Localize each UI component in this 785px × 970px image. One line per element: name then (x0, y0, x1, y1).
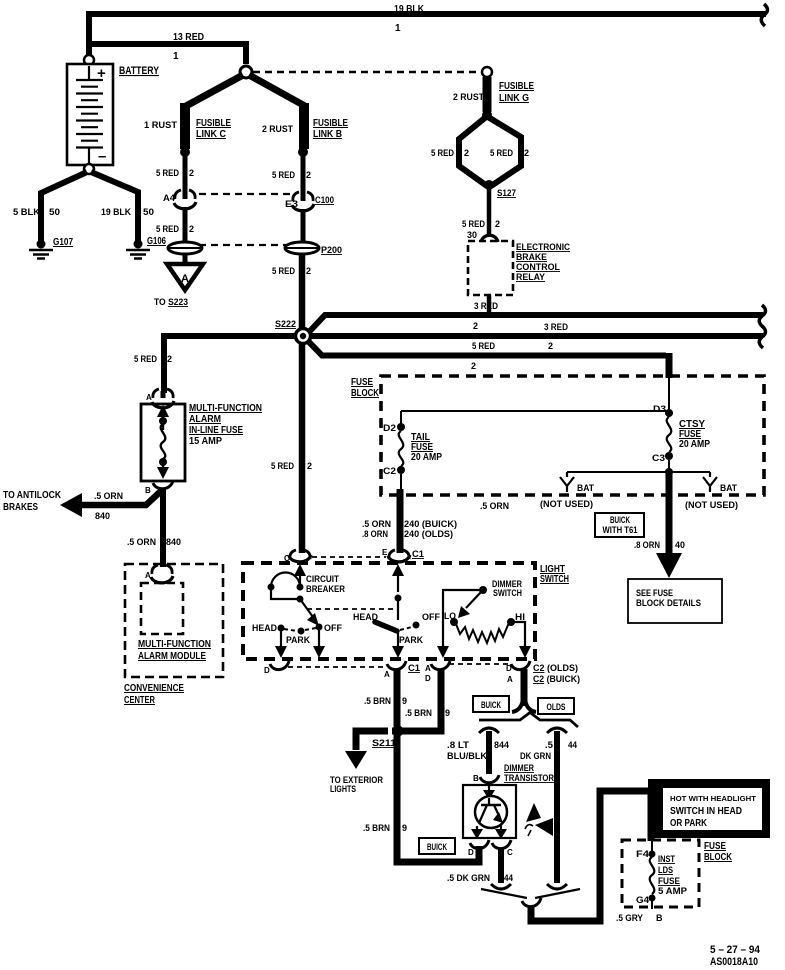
svg-text:WITH T61: WITH T61 (603, 525, 638, 535)
svg-text:.5 ORN: .5 ORN (480, 501, 509, 511)
label C (507, 848, 513, 857)
svg-text:SEE FUSE: SEE FUSE (636, 588, 673, 598)
label PARK (286, 635, 310, 645)
ground G107 (29, 240, 53, 259)
svg-text:5 RED: 5 RED (462, 219, 485, 229)
battery top terminal (84, 55, 94, 65)
wire 5 RED to P200 (301, 209, 306, 243)
svg-text:15 AMP: 15 AMP (189, 436, 222, 447)
break symbol right end 19 BLK (761, 4, 767, 26)
svg-text:50: 50 (143, 207, 154, 217)
label ELECTRONIC BRAKE CONTROL RELAY (516, 242, 570, 282)
svg-text:1: 1 (173, 51, 179, 62)
svg-text:PARK: PARK (286, 635, 310, 645)
svg-text:5 RED: 5 RED (272, 170, 295, 180)
label D3 (653, 404, 666, 414)
label MULTI-FUNCTION ALARM MODULE (138, 639, 211, 662)
wire .5 DK GRN from C down (498, 849, 504, 883)
svg-text:BUICK: BUICK (427, 842, 447, 852)
svg-text:AS0018A10: AS0018A10 (710, 956, 758, 968)
stub below G4 (651, 901, 653, 909)
label OFF (324, 623, 342, 633)
label .8 ORN 240 OLDS (362, 529, 453, 539)
label DIMMER TRANSISTOR (504, 763, 554, 783)
label A module (145, 571, 151, 580)
arrow HEAD to D (275, 631, 287, 658)
svg-text:RELAY: RELAY (516, 272, 545, 282)
BAT fork left (560, 472, 574, 492)
label .5 ORN floating (480, 501, 509, 511)
svg-text:OLDS: OLDS (547, 702, 566, 712)
electronic brake control relay dashed box (468, 241, 513, 295)
ctsy fuse element (667, 417, 672, 452)
junction dot below link B (298, 147, 308, 157)
label G4 (636, 895, 649, 905)
svg-text:CENTER: CENTER (124, 695, 156, 706)
connector D transistor (470, 840, 489, 849)
svg-text:ALARM: ALARM (189, 414, 221, 425)
svg-text:BLU/BLK: BLU/BLK (447, 751, 488, 761)
svg-text:BLOCK DETAILS: BLOCK DETAILS (636, 598, 701, 608)
svg-text:BAT: BAT (720, 483, 737, 493)
svg-text:F4: F4 (636, 849, 649, 859)
label FUSIBLE LINK G (499, 81, 534, 104)
wire from D A C2 down (521, 669, 528, 706)
arrow up inside fuse box (157, 405, 169, 430)
svg-text:FUSIBLE: FUSIBLE (196, 118, 231, 129)
label C (284, 554, 290, 563)
label BAT left (577, 483, 594, 493)
svg-text:ELECTRONIC: ELECTRONIC (516, 242, 570, 252)
svg-text:MULTI-FUNCTION: MULTI-FUNCTION (189, 403, 262, 414)
svg-text:FUSIBLE: FUSIBLE (499, 81, 534, 92)
svg-text:2: 2 (306, 266, 311, 276)
wire battery negative to G106 (91, 172, 138, 241)
bracket under olds wire (547, 884, 567, 889)
wire to fusible link C (186, 75, 243, 106)
svg-text:240 (OLDS): 240 (OLDS) (404, 529, 453, 539)
wire C2 down thin (400, 474, 402, 490)
label FUSE BLOCK lower (704, 841, 733, 863)
contact OFF left (316, 624, 323, 631)
svg-text:5 RED: 5 RED (272, 266, 295, 276)
dashed link junction to fusible link G (253, 71, 480, 74)
svg-text:C1: C1 (412, 549, 424, 559)
svg-text:ALARM MODULE: ALARM MODULE (138, 651, 206, 662)
svg-text:OFF: OFF (324, 623, 342, 633)
svg-text:2: 2 (189, 224, 194, 234)
multi-function alarm module dashed box (141, 583, 183, 634)
connector D light switch bottom (270, 661, 289, 670)
merge vee (481, 889, 580, 898)
label LO (444, 611, 456, 621)
svg-text:.8 ORN: .8 ORN (362, 529, 388, 539)
fusible link G (483, 77, 492, 112)
label TO ANTILOCK BRAKES (3, 490, 62, 513)
svg-text:D: D (425, 674, 431, 683)
label 5 RED 2 (156, 168, 194, 178)
label B (473, 774, 479, 783)
connector B transistor (480, 775, 499, 783)
svg-text:5 AMP: 5 AMP (658, 886, 687, 896)
splice S222 (296, 329, 311, 344)
label CIRCUIT BREAKER (306, 574, 345, 594)
svg-text:9: 9 (445, 708, 450, 718)
svg-text:BLOCK: BLOCK (351, 388, 380, 399)
bracket buick branch (479, 728, 499, 733)
label D (264, 666, 270, 675)
connector C2 below (512, 699, 536, 712)
svg-text:D2: D2 (383, 423, 396, 433)
node fusible link G top (482, 67, 492, 77)
svg-text:5 RED: 5 RED (271, 461, 294, 471)
BUICK WITH T61 box (595, 513, 644, 537)
svg-text:CONVENIENCE: CONVENIENCE (124, 683, 184, 694)
splice S127 (484, 180, 494, 190)
label 5 RED 2 below P200 (272, 266, 311, 276)
svg-text:5 RED: 5 RED (156, 224, 179, 234)
wire 5 RED to relay (487, 185, 492, 236)
svg-text:D: D (264, 666, 270, 675)
svg-text:9: 9 (402, 696, 407, 706)
svg-text:.5 BRN: .5 BRN (364, 696, 391, 706)
svg-text:.5: .5 (545, 740, 553, 750)
svg-text:S127: S127 (497, 188, 516, 198)
label F4 (636, 849, 649, 859)
svg-text:.5 ORN: .5 ORN (127, 537, 156, 547)
BUICK tag upper (473, 696, 509, 712)
dot upper fuse (159, 417, 167, 425)
wire .5 BRN from A D down to S211 (401, 669, 441, 731)
dashed link A4 to E3 (199, 193, 293, 195)
label 5 RED 2 left loop (431, 148, 469, 158)
wire .5 DK GRN olds branch (554, 731, 560, 883)
label MULTI-FUNCTION ALARM IN-LINE FUSE 15 AMP (189, 403, 262, 447)
svg-text:FUSE: FUSE (351, 377, 373, 388)
wire loop right 5 RED (488, 117, 521, 186)
wire drop into fuse block at D3 (666, 353, 673, 411)
wire C3 to junction (668, 460, 670, 472)
grommet P200 (285, 242, 319, 254)
splice S211 (388, 726, 404, 737)
svg-text:LDS: LDS (658, 865, 673, 875)
label 5 RED 2 (272, 170, 311, 180)
svg-text:2 RUST: 2 RUST (453, 92, 484, 102)
dimmer feed line and arrow down (437, 590, 480, 658)
svg-text:2: 2 (471, 361, 476, 371)
label C100 (315, 195, 334, 205)
svg-text:BRAKES: BRAKES (3, 502, 38, 513)
svg-text:TO S223: TO S223 (154, 297, 188, 307)
arrow up to C inside box (294, 564, 306, 590)
svg-text:BUICK: BUICK (610, 515, 630, 525)
label 2 RUST (262, 124, 293, 134)
convenience center dashed box (125, 564, 223, 677)
transistor circle (475, 796, 507, 828)
label NOT USED right (685, 500, 738, 510)
label .5 ORN 840 (127, 537, 181, 547)
svg-text:3 RED: 3 RED (474, 301, 498, 311)
wiper arrow to OFF (300, 599, 319, 626)
label 1 RUST (144, 120, 178, 130)
svg-text:BRAKE: BRAKE (516, 252, 547, 262)
dimmer resistor (456, 622, 511, 643)
svg-text:BUICK: BUICK (481, 700, 501, 710)
dimmer wiper arrow to LO (458, 592, 481, 618)
connector E C1 light switch (388, 550, 410, 562)
wire .5 ORN B to module (160, 488, 166, 567)
label D A (506, 664, 513, 684)
label .5 GRY B (616, 913, 663, 923)
label D2 (383, 423, 396, 433)
svg-text:OFF: OFF (422, 612, 440, 622)
contact LO (450, 618, 458, 626)
label S222 (275, 319, 296, 329)
tail fuse element (399, 431, 404, 466)
label G106 (147, 236, 166, 247)
label HI (515, 612, 525, 622)
svg-text:SWITCH: SWITCH (493, 588, 522, 598)
dashed link D to A (288, 666, 387, 668)
hot box (648, 779, 770, 838)
label 5 RED 2 (462, 219, 500, 229)
arrowhead to fuse block details (656, 553, 682, 578)
terminal D2 (397, 423, 405, 431)
svg-text:LINK C: LINK C (196, 129, 226, 140)
svg-text:A: A (507, 675, 513, 684)
label C2 OLDS (533, 663, 578, 673)
label 13 RED (173, 32, 204, 43)
inst lds fuse element (650, 857, 655, 894)
label TO S223 (154, 297, 188, 307)
contact HI (507, 618, 515, 626)
connector D A C2 bottom (511, 661, 530, 670)
label 5 RED 2 (134, 354, 172, 364)
label FUSIBLE LINK B (313, 118, 348, 140)
label PARK center (399, 635, 423, 645)
label LIGHT SWITCH (540, 564, 569, 585)
label D (468, 848, 474, 857)
svg-text:5 RED: 5 RED (472, 341, 495, 351)
svg-text:840: 840 (95, 511, 110, 521)
label .5 BRN 9 upper (364, 696, 407, 706)
label BATTERY (119, 65, 160, 77)
svg-text:20 AMP: 20 AMP (679, 439, 710, 450)
svg-text:9: 9 (402, 823, 407, 833)
label OFF center (422, 612, 440, 622)
connector merge (522, 898, 541, 907)
svg-text:D: D (506, 664, 512, 673)
terminal D3 (665, 409, 673, 417)
wire ORN down from C3 junction (666, 474, 673, 554)
wire 5 RED main vertical to light switch C (299, 254, 306, 553)
svg-text:C2 (BUICK): C2 (BUICK) (533, 674, 580, 684)
circuit breaker arc (268, 573, 301, 591)
grommet left at P200 row (168, 242, 202, 254)
connector C light switch (289, 550, 311, 562)
wire 5 RED bus lower to fuse block (309, 342, 666, 356)
fusible link C (180, 103, 190, 149)
svg-text:D: D (468, 848, 474, 857)
stub to D2 (400, 411, 402, 424)
svg-text:C2 (OLDS): C2 (OLDS) (533, 663, 578, 673)
svg-text:LINK B: LINK B (313, 129, 342, 140)
variant split tent (479, 713, 578, 728)
contact OFF center (413, 622, 420, 629)
svg-text:20 AMP: 20 AMP (411, 452, 442, 463)
svg-text:.5 ORN: .5 ORN (362, 519, 391, 529)
multi-function alarm in-line fuse box (141, 404, 185, 481)
svg-text:19 BLK: 19 BLK (394, 4, 425, 15)
svg-text:PARK: PARK (399, 635, 423, 645)
label C1 (408, 663, 420, 673)
label 19 BLK 50 (101, 207, 154, 217)
svg-text:SWITCH IN HEAD: SWITCH IN HEAD (670, 806, 742, 817)
svg-text:3 RED: 3 RED (544, 322, 568, 332)
wire to BAT stubs (567, 471, 710, 473)
date 5-27-94 (710, 944, 761, 956)
junction dot below link G (482, 110, 492, 120)
svg-text:G106: G106 (147, 236, 166, 247)
wire merged to hot feed (531, 791, 651, 921)
wire 13 RED (91, 44, 246, 64)
label HEAD (252, 623, 277, 633)
svg-text:BLOCK: BLOCK (704, 852, 733, 863)
svg-text:A: A (425, 664, 431, 673)
svg-text:A: A (384, 670, 390, 679)
contact HEAD left (278, 625, 285, 632)
bracket olds branch (547, 728, 567, 733)
svg-text:2: 2 (495, 219, 500, 229)
svg-text:(NOT USED): (NOT USED) (685, 500, 738, 510)
label .8 ORN 40 (634, 540, 685, 550)
label 1 (13 RED gauge) (173, 51, 179, 62)
svg-text:5 RED: 5 RED (134, 354, 157, 364)
wire S222 west to alarm fuse (164, 336, 299, 393)
label HEAD center (353, 612, 378, 622)
arrow A down center (392, 633, 404, 658)
dimmer switch dot (479, 586, 487, 594)
svg-text:G107: G107 (53, 237, 73, 248)
connector A4 (174, 190, 196, 209)
svg-text:CONTROL: CONTROL (516, 262, 560, 272)
label FUSE BLOCK (351, 377, 380, 399)
arrowhead exterior lights (345, 751, 367, 769)
svg-text:D3: D3 (653, 404, 666, 414)
transistor arrows out (471, 824, 507, 839)
ESD symbol (525, 803, 553, 836)
connector E3 C100 (292, 192, 314, 211)
label C2 BUICK (533, 674, 580, 684)
svg-text:.5 BRN: .5 BRN (405, 708, 432, 718)
wire battery negative to G107 (41, 172, 87, 241)
svg-text:+: + (97, 65, 106, 82)
wire 5 RED to P200 left (183, 207, 188, 243)
svg-text:2: 2 (464, 148, 469, 158)
svg-text:2: 2 (306, 170, 311, 180)
svg-text:DK GRN: DK GRN (520, 751, 551, 761)
svg-text:IN-LINE FUSE: IN-LINE FUSE (189, 425, 243, 436)
svg-text:OR PARK: OR PARK (670, 818, 708, 829)
contact PARK left (298, 628, 305, 635)
terminal G4 (649, 895, 656, 902)
wire 5 RED to A4 (183, 152, 188, 194)
BAT fork right (703, 472, 717, 492)
label A (384, 670, 390, 679)
svg-text:C: C (507, 848, 513, 857)
connector A alarm fuse (152, 389, 174, 408)
wire S211 west arrow to exterior lights (356, 731, 394, 750)
svg-text:LINK G: LINK G (499, 93, 529, 104)
svg-text:HI: HI (515, 612, 525, 622)
dashed contacts left (284, 628, 316, 631)
wiper HEAD position (375, 622, 397, 631)
label .5 BRN 9 second (405, 708, 450, 718)
junction dot below link C (180, 147, 190, 157)
svg-text:50: 50 (49, 207, 60, 217)
svg-text:5 RED: 5 RED (490, 148, 513, 158)
svg-text:.5 ORN: .5 ORN (94, 491, 123, 501)
circuit breaker dot lower (297, 596, 304, 603)
bracket under C wire (491, 884, 511, 889)
svg-text:2: 2 (548, 341, 553, 351)
connector A alarm module (151, 565, 173, 583)
label 5 BLK 50 (13, 207, 60, 217)
svg-text:B: B (656, 913, 663, 923)
svg-text:TRANSISTOR: TRANSISTOR (504, 773, 554, 783)
label INST LDS FUSE 5 AMP (658, 854, 687, 896)
wire stub to triangle A (183, 254, 188, 264)
svg-text:A: A (146, 393, 152, 402)
label A (146, 393, 152, 402)
ground G106 (126, 240, 150, 259)
arrow down inside fuse box (157, 462, 169, 479)
label C3 (652, 453, 665, 463)
svg-text:1 RUST: 1 RUST (144, 120, 178, 130)
label TAIL FUSE 20 AMP (411, 432, 442, 463)
SEE FUSE BLOCK DETAILS box (628, 579, 722, 623)
dot lower fuse (159, 458, 167, 466)
label TO EXTERIOR LIGHTS (330, 775, 383, 794)
svg-text:BREAKER: BREAKER (306, 584, 345, 594)
drawing number AS0018A10 (710, 956, 758, 968)
break symbol bus middle (759, 326, 765, 348)
wire 3 RED bus middle (310, 333, 763, 339)
wire E dot down (397, 600, 399, 620)
inst lds fuse block dashed box (622, 840, 699, 907)
label pin 30 (467, 230, 477, 240)
svg-text:HEAD: HEAD (252, 623, 277, 633)
wire to fusible link B (249, 75, 305, 106)
svg-text:CIRCUIT: CIRCUIT (306, 574, 339, 584)
label E (382, 548, 388, 557)
fuse block dashed box (381, 376, 764, 495)
off-page triangle A TO S223 (167, 264, 203, 290)
terminal F4 (649, 851, 656, 858)
svg-text:INST: INST (658, 854, 675, 864)
svg-text:A4: A4 (163, 193, 175, 203)
dashed mechanical link (307, 608, 393, 610)
svg-text:SWITCH: SWITCH (540, 574, 569, 585)
label G107 (53, 237, 73, 248)
arrow up to E inside box (392, 564, 404, 592)
svg-text:44: 44 (568, 740, 577, 750)
feed dot E (395, 595, 402, 602)
svg-text:E: E (382, 548, 388, 557)
label .5 44 DK GRN (520, 740, 577, 761)
label NOT USED left (540, 499, 593, 509)
label 5 RED 2 (156, 224, 194, 234)
